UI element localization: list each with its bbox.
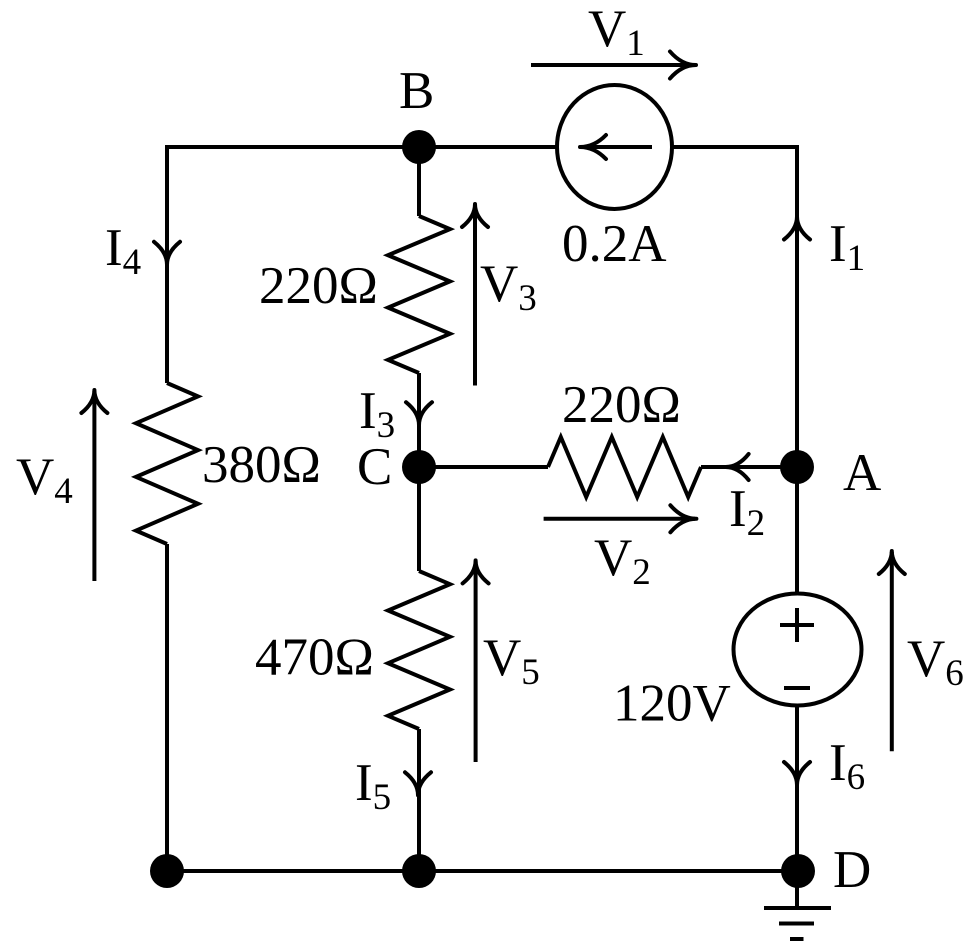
svg-text:380Ω: 380Ω — [202, 436, 321, 494]
resistor 470ohm — [388, 571, 450, 729]
node A — [780, 450, 814, 484]
arrow I1 on right wire — [784, 217, 810, 240]
resistor 220ohm (horizontal) — [548, 437, 701, 497]
arrow I2 on wire — [726, 454, 749, 480]
svg-text:V5: V5 — [483, 629, 540, 693]
wire node A to voltage source — [795, 467, 799, 594]
arrow V3 — [473, 205, 477, 386]
svg-text:120V: 120V — [613, 675, 731, 733]
wire node C to horizontal 220ohm resistor — [419, 465, 548, 469]
arrow V1 — [531, 63, 695, 67]
svg-text:470Ω: 470Ω — [255, 629, 374, 687]
svg-text:V3: V3 — [480, 255, 537, 319]
resistor 220ohm (vertical) — [388, 216, 450, 373]
svg-text:V2: V2 — [594, 529, 651, 593]
voltage source 120V circle — [734, 594, 862, 706]
voltage source plus sign — [780, 608, 814, 642]
arrow I3 on center wire — [406, 402, 432, 425]
resistor 380ohm — [136, 383, 198, 544]
svg-text:V4: V4 — [16, 448, 73, 512]
wire node B to 220ohm resistor — [417, 147, 421, 216]
wire horizontal 220ohm resistor to node A — [701, 465, 797, 469]
svg-text:D: D — [833, 841, 871, 899]
wire 220ohm resistor to node C — [417, 373, 421, 467]
current source 0.2A circle — [557, 85, 672, 209]
svg-text:A: A — [843, 444, 881, 502]
node D — [781, 854, 815, 888]
svg-text:I3: I3 — [359, 382, 395, 446]
wire left vertical lower — [165, 544, 169, 871]
arrow I6 on right wire — [784, 762, 810, 785]
svg-text:V1: V1 — [588, 0, 645, 64]
wire top-right: current source to right corner — [671, 145, 797, 149]
svg-text:I5: I5 — [355, 754, 391, 818]
svg-text:I4: I4 — [105, 219, 141, 283]
wire top-middle: node B to current source — [419, 145, 559, 149]
svg-text:B: B — [399, 62, 434, 120]
node bottom-left junction — [150, 854, 184, 888]
ground — [764, 871, 831, 939]
svg-text:0.2A: 0.2A — [562, 215, 667, 273]
wire top-left: left corner to node B — [167, 145, 419, 149]
arrow V4 — [92, 391, 96, 581]
node C — [402, 450, 436, 484]
svg-text:220Ω: 220Ω — [562, 376, 681, 434]
arrow V2 — [544, 517, 695, 521]
arrow V6 — [890, 552, 894, 751]
wire bottom — [167, 869, 797, 873]
arrow V5 — [474, 562, 478, 763]
wire 470ohm resistor to bottom — [417, 729, 421, 871]
svg-text:C: C — [357, 438, 392, 496]
wire node C to 470ohm resistor — [417, 467, 421, 571]
arrow I4 on left wire — [154, 242, 180, 265]
wire left vertical upper — [165, 145, 169, 383]
node bottom-center junction — [402, 854, 436, 888]
wire voltage source to node D — [795, 705, 799, 871]
svg-text:220Ω: 220Ω — [259, 257, 378, 315]
arrow I5 on center wire — [405, 772, 431, 795]
svg-text:V6: V6 — [907, 630, 964, 694]
svg-text:I6: I6 — [829, 734, 865, 798]
voltage source minus sign — [784, 686, 810, 690]
node B — [402, 130, 436, 164]
svg-text:I2: I2 — [729, 480, 765, 544]
svg-text:I1: I1 — [829, 215, 865, 279]
wire right vertical: corner to node A — [795, 145, 799, 467]
current source arrow — [581, 145, 652, 149]
